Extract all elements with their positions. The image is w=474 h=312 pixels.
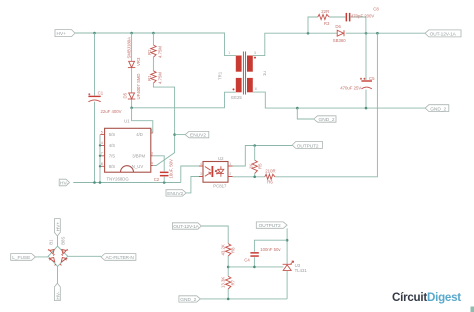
svg-text:1u: 1u (262, 71, 267, 76)
optocoupler U2 PC817 (199, 156, 233, 189)
resistor R8 43.2K (221, 244, 236, 256)
svg-text:R3: R3 (324, 21, 330, 26)
svg-text:HV-: HV- (55, 291, 61, 299)
svg-text:22R: 22R (321, 9, 329, 14)
svg-text:22uF 400V: 22uF 400V (101, 109, 122, 114)
svg-text:TL431: TL431 (295, 268, 308, 273)
diode bridge bottom-right (60, 258, 67, 266)
svg-text:R6: R6 (267, 179, 273, 184)
svg-text:B1: B1 (48, 239, 53, 245)
svg-text:4.75M: 4.75M (158, 72, 163, 84)
svg-text:210R: 210R (265, 169, 275, 174)
wire GND_2 flag stub (297, 108, 313, 119)
svg-text:C2: C2 (154, 177, 160, 182)
wire TL431 anode to GND (286, 271, 288, 299)
svg-text:5: 5 (101, 130, 103, 134)
svg-text:8: 8 (101, 162, 103, 166)
svg-text:R7: R7 (230, 279, 235, 285)
svg-text:R2: R2 (147, 49, 152, 55)
svg-text:HV+: HV+ (57, 31, 67, 37)
svg-text:AC-FILTER-N: AC-FILTER-N (105, 255, 134, 261)
wire clamp branch (131, 33, 133, 108)
svg-text:GND_2: GND_2 (319, 117, 335, 123)
node HV+ junction C1 (93, 32, 96, 35)
svg-text:EE25: EE25 (231, 95, 242, 100)
capacitor C1 (88, 90, 121, 114)
svg-text:4.75M: 4.75M (158, 46, 163, 58)
svg-text:43.2K: 43.2K (221, 244, 226, 255)
svg-text:470pF 200V: 470pF 200V (351, 13, 375, 18)
node EN/UV sense junction (173, 133, 176, 136)
svg-text:2: 2 (229, 172, 231, 176)
svg-text:B8S: B8S (61, 237, 66, 245)
IC U3 TL431 (283, 261, 308, 273)
capacitor C8 470pF (346, 7, 380, 22)
svg-text:3/BPM: 3/BPM (132, 153, 145, 158)
svg-text:HV-: HV- (60, 180, 68, 186)
node GND_2 flag branch junction (296, 107, 299, 110)
wire HV+ rail (75, 33, 236, 56)
svg-text:SB360: SB360 (333, 38, 347, 43)
node HV+ junction clamp (130, 32, 133, 35)
capacitor C4 100nF (244, 247, 281, 263)
net flag OUT-12V-1A lower (172, 223, 201, 230)
node drain junction (130, 107, 133, 110)
svg-text:OUTPUT2: OUTPUT2 (297, 143, 319, 149)
wire C1 branch (94, 33, 96, 183)
wire secondary top (253, 33, 425, 55)
svg-text:D6: D6 (335, 24, 341, 29)
wire R7 to GND rail (227, 289, 229, 299)
net flag AC-FILTER-N (101, 254, 136, 261)
diode VR3 zener SMBJ180A (126, 37, 141, 68)
wire snubber branch (308, 17, 366, 33)
corner mark (471, 307, 474, 312)
bridge labels (48, 237, 65, 245)
logo CircuitDigest (392, 291, 461, 304)
svg-text:OUTPUT2: OUTPUT2 (259, 223, 281, 229)
svg-text:VR3: VR3 (136, 57, 141, 66)
wire opto pin1 to OUTPUT2 node (233, 146, 293, 167)
net flag L_FUSE (11, 254, 36, 261)
svg-text:13.3K: 13.3K (221, 277, 226, 288)
resistor R1 4.75M (147, 71, 163, 84)
svg-text:3: 3 (151, 152, 153, 156)
svg-text:CírcuitDigest: CírcuitDigest (392, 291, 461, 304)
node R5 top junction (253, 144, 256, 147)
wire R5 column (254, 146, 256, 177)
wire sense branch (153, 33, 175, 166)
diode bridge top-left (48, 249, 55, 256)
diode D5 UF4007 (123, 73, 141, 99)
svg-text:N_UV: N_UV (132, 164, 144, 169)
svg-text:1: 1 (229, 162, 231, 166)
wire C5 branch (365, 33, 367, 108)
transformer TR1 (218, 51, 267, 100)
node R5 bottom junction (253, 176, 256, 179)
bridge rectifier B1 diamond (48, 246, 68, 266)
resistor R2 4.75M (147, 45, 163, 58)
svg-text:10uF, 50V: 10uF, 50V (169, 159, 174, 178)
wire opto collector to HV- rail (181, 166, 199, 183)
diode bridge top-right (62, 249, 69, 256)
svg-text:U2: U2 (218, 156, 224, 161)
svg-text:R1: R1 (147, 75, 152, 81)
svg-text:4: 4 (101, 141, 103, 145)
resistor R3 22R (318, 9, 330, 26)
svg-text:5/S: 5/S (109, 132, 116, 137)
net flag OUT-12V-1A top (425, 30, 461, 38)
wire OUTPUT2 drop to TL431 (286, 228, 288, 264)
svg-text:1: 1 (228, 51, 230, 55)
svg-text:GND_2: GND_2 (430, 107, 446, 113)
wire C4 branch (254, 240, 287, 267)
node C5 GND junction (365, 107, 368, 110)
wire bridge stubs (35, 236, 101, 283)
diode D6 SB360 (333, 24, 347, 43)
svg-text:HV+: HV+ (55, 222, 61, 232)
svg-text:4: 4 (200, 162, 202, 166)
wire OUT to divider (201, 226, 228, 244)
svg-text:8: 8 (255, 87, 257, 91)
wire opto pin2 rail (233, 176, 265, 178)
svg-text:ENUV2: ENUV2 (190, 133, 206, 139)
resistor R6 210R (265, 169, 276, 185)
node divider junction (227, 266, 230, 269)
wire GND_2 rail (253, 92, 427, 108)
node C4 bottom junction (253, 266, 256, 269)
svg-text:D5: D5 (123, 92, 128, 98)
svg-text:5: 5 (254, 51, 256, 55)
svg-text:C5: C5 (369, 76, 375, 81)
wire to EN/UV2 flag (175, 134, 186, 136)
svg-text:C1: C1 (98, 90, 104, 95)
svg-text:L_FUSE: L_FUSE (12, 255, 30, 261)
svg-text:100nF 50v: 100nF 50v (260, 247, 281, 252)
op-amp U1 TNY268DG switcher IC (100, 119, 153, 182)
net flag HV- vertical (54, 283, 61, 300)
net flag HV+ (55, 30, 75, 37)
svg-text:8/S: 8/S (109, 164, 116, 169)
node secondary junction (307, 32, 310, 35)
node HV+ junction sense (152, 32, 155, 35)
net flag EN/UV2 upper (185, 131, 209, 138)
node GND R7 junction (227, 298, 230, 301)
resistor R7 13.3K (221, 276, 236, 289)
svg-text:UF4007 SMD: UF4007 SMD (136, 73, 141, 99)
svg-text:OUT-12V-1A: OUT-12V-1A (173, 224, 199, 230)
wire opto emitter to EN/UV2 flag (186, 177, 199, 193)
svg-text:4/D: 4/D (136, 132, 143, 137)
svg-text:7/S: 7/S (109, 153, 116, 158)
resistor R5 1K (249, 160, 263, 173)
svg-text:1K: 1K (249, 164, 254, 169)
net flag GND_2 middle (314, 116, 336, 123)
svg-text:GND_2: GND_2 (180, 297, 196, 303)
svg-text:PC817: PC817 (213, 184, 227, 189)
svg-text:ENUV2: ENUV2 (167, 191, 183, 197)
svg-text:1: 1 (151, 129, 153, 133)
net flag ENUV2 lower (166, 190, 186, 197)
net flag GND_2 lower (179, 296, 201, 303)
net flag OUTPUT2 upper (292, 142, 322, 150)
capacitor C5 470uF (340, 76, 375, 91)
wire divider middle (227, 256, 229, 276)
wire drain to IC pin (132, 108, 153, 133)
svg-text:SMBJ180A: SMBJ180A (126, 37, 131, 59)
net flag HV+ vertical (54, 219, 61, 236)
wire ref line (228, 266, 283, 268)
wire output drop to R6 (275, 33, 378, 177)
node C4 branch junction (286, 239, 289, 242)
svg-text:R8: R8 (230, 247, 235, 253)
net flag OUTPUT2 lower (256, 222, 287, 229)
node HV- junctions (93, 181, 96, 184)
wire BPM to C2 (153, 156, 164, 183)
svg-text:OUT-12V-1A: OUT-12V-1A (430, 32, 457, 38)
svg-text:470uF 25V: 470uF 25V (340, 86, 361, 91)
diode bridge bottom-left (49, 258, 56, 266)
capacitor C2 10uF (154, 159, 174, 182)
wire IC source bus (99, 135, 101, 183)
wire GND rail lower (200, 298, 287, 300)
node source bus junctions (99, 144, 101, 146)
node output drop junction (376, 32, 379, 35)
wire drain line (132, 92, 236, 108)
svg-text:R5: R5 (258, 163, 263, 169)
svg-text:C8: C8 (373, 7, 379, 12)
svg-text:U1: U1 (124, 119, 130, 124)
net flag GND_2 right (425, 105, 449, 113)
node snubber rejoin junction (365, 32, 368, 35)
wire HV- rail (73, 182, 181, 184)
svg-text:4: 4 (151, 161, 153, 165)
net flag HV- (59, 179, 69, 186)
svg-text:TNY268DG: TNY268DG (107, 177, 130, 182)
svg-text:C4: C4 (244, 257, 250, 262)
svg-text:TR1: TR1 (218, 71, 223, 80)
svg-text:4/S: 4/S (109, 143, 116, 148)
svg-text:7: 7 (101, 152, 103, 156)
svg-text:3: 3 (200, 172, 202, 176)
